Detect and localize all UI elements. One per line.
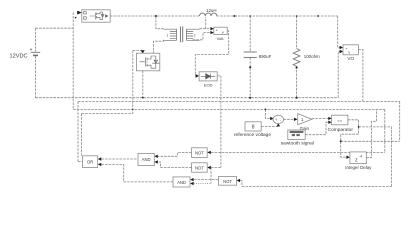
junction node bus sum tap	[265, 109, 267, 111]
wire OR lower input from AND2	[102, 164, 174, 182]
logic OR block	[83, 156, 98, 168]
arrow into AND2 lower	[190, 182, 193, 185]
wire EOD output down	[217, 76, 221, 168]
junction node top rail c	[317, 15, 319, 17]
svg-text:Volt.: Volt.	[217, 36, 225, 41]
wire secondary bottom to voltmeter	[193, 33, 211, 40]
arrow into OR lower	[98, 163, 101, 166]
wire 12VDC top to gate column	[35, 27, 73, 29]
svg-text:12uH: 12uH	[206, 8, 217, 13]
diode D1 EOD block	[199, 72, 217, 81]
logic AND2 block	[173, 177, 190, 187]
svg-text:NOT: NOT	[195, 166, 204, 171]
logic AND1 block	[138, 153, 154, 165]
arrow into AND2 upper	[190, 178, 193, 181]
svg-text:100ohm: 100ohm	[304, 54, 320, 59]
arrow comparator input lower	[328, 121, 331, 124]
transformer core	[180, 27, 182, 43]
wire dc source top lead	[34, 28, 36, 51]
wire primary bottom to mosfet2	[154, 40, 164, 53]
svg-text:EOD: EOD	[204, 82, 213, 87]
wire delay output up	[366, 109, 376, 157]
constant block reference voltage	[245, 122, 261, 131]
junction node top rail a	[155, 15, 157, 17]
svg-text:AND: AND	[177, 180, 186, 185]
svg-text:v: v	[222, 30, 224, 35]
wire mosfet2 source to rail	[142, 71, 144, 98]
svg-text:VO: VO	[347, 56, 354, 61]
arrow voltmeter input plus	[210, 27, 213, 30]
wire secondary top riser	[200, 17, 211, 29]
junction node top rail b	[234, 15, 236, 17]
wire lower feedback horizontal	[341, 140, 400, 142]
inductor L1 12uH	[200, 13, 217, 16]
wire resistor bottom lead	[296, 66, 298, 97]
wire feedback bus horizontal	[73, 108, 385, 110]
svg-text:890uF: 890uF	[259, 54, 272, 59]
wire AND2 lower input dotted	[194, 183, 211, 185]
wire VO minus to rail	[338, 52, 339, 98]
comparator U2 block	[332, 115, 348, 125]
wire NOT1 input long line	[211, 109, 385, 152]
arrow into NOT1	[207, 151, 211, 154]
gain G1 triangle	[298, 114, 312, 125]
wire gate branch lower	[78, 101, 133, 161]
wire constant to sum	[261, 125, 278, 127]
voltmeter VO block	[343, 45, 358, 55]
arrow into OR upper	[98, 157, 101, 160]
wire gate/feed vertical column	[72, 12, 74, 109]
svg-text:-4: -4	[359, 154, 362, 158]
arrow into sum bottom	[277, 123, 281, 126]
junction node cap mark	[249, 66, 251, 68]
wire sum to gain	[284, 118, 295, 120]
wire NOT3 output to AND2	[194, 179, 219, 181]
arrow into sum left	[270, 117, 273, 120]
junction node rail mosfet2	[142, 97, 144, 99]
wire gain to comparator	[312, 117, 328, 119]
svg-text:NOT: NOT	[223, 179, 232, 184]
mosfet1 U1 block	[82, 10, 110, 22]
junction node rail cap	[249, 97, 251, 99]
arrow voltmeter input minus	[210, 31, 213, 34]
wire top rail corner down to VO	[338, 16, 340, 48]
junction node mosfet1 aux	[75, 17, 77, 19]
wire primary feed drop	[156, 16, 164, 29]
junction node rail res	[296, 97, 298, 99]
svg-text:2: 2	[194, 33, 196, 37]
svg-text:OR: OR	[87, 160, 93, 165]
wire NOT2 to AND1	[158, 162, 192, 168]
wire top output rail	[110, 15, 338, 17]
dc voltage source 12VDC	[30, 48, 40, 55]
arrow comparator input upper	[328, 117, 331, 120]
wire NOT3 input long line	[240, 181, 391, 187]
wire NOT2 line branch to AND2	[210, 168, 212, 184]
arrow VO input plus	[340, 46, 343, 49]
arrow into mosfet1	[77, 11, 82, 15]
logic NOT3 block	[219, 177, 237, 186]
wire mosfet2 gate feed	[133, 51, 143, 114]
wire AND1 output to OR	[102, 158, 139, 160]
wire OR output	[78, 161, 83, 163]
wire capacitor bottom lead	[249, 57, 251, 97]
svg-text:1: 1	[167, 33, 169, 37]
transformer secondary winding	[186, 29, 199, 40]
svg-text:Integer Delay: Integer Delay	[345, 165, 372, 170]
svg-text:Comparator: Comparator	[328, 127, 354, 133]
wire feedback drop to sum	[266, 109, 271, 118]
wire NOT2 input	[211, 167, 221, 169]
svg-text:NOT: NOT	[195, 151, 204, 156]
logic NOT2 block	[192, 163, 208, 172]
svg-text:v: v	[348, 50, 350, 54]
arrow into AND1 upper	[154, 155, 157, 158]
wire resistor top lead	[296, 16, 298, 49]
junction node delay path	[340, 140, 342, 142]
arrow into AND1 lower	[154, 160, 157, 163]
junction node res tap	[296, 15, 298, 17]
svg-text:+: +	[345, 47, 347, 51]
transformer T1	[164, 27, 200, 43]
integer delay Z1 block	[350, 152, 366, 164]
svg-text:<=: <=	[337, 118, 342, 123]
svg-text:reference voltage: reference voltage	[234, 132, 271, 138]
wire NOT1 to AND1	[158, 152, 192, 156]
junction node res mark	[296, 66, 298, 68]
svg-text:+: +	[216, 28, 218, 32]
svg-text:AND: AND	[142, 157, 151, 162]
resistor R1	[293, 49, 300, 67]
svg-text:sawtooth signal: sawtooth signal	[281, 141, 314, 147]
arrow into integer delay	[346, 156, 350, 159]
arrow into mosfet2	[141, 50, 145, 53]
sum junction S1	[273, 115, 284, 123]
svg-text:12VDC: 12VDC	[10, 54, 28, 60]
arrow into gain	[294, 118, 298, 121]
wire VO output down right side	[78, 50, 400, 142]
arrow into NOT3	[237, 179, 241, 182]
logic NOT1 block	[192, 148, 208, 158]
wire sawtooth to comparator	[305, 122, 328, 135]
wire comparator output to delay	[341, 120, 359, 157]
wire comparator branch right	[359, 127, 392, 187]
arrow into NOT2	[207, 166, 211, 169]
svg-text:8: 8	[252, 125, 255, 131]
arrow into EOD diode	[196, 74, 200, 78]
mosfet2 Q1 block	[137, 53, 160, 71]
arrow VO input minus	[340, 50, 343, 53]
junction node bus left	[132, 109, 133, 110]
junction node cap tap	[249, 15, 251, 17]
voltmeter V1 block	[214, 27, 227, 34]
capacitor C1	[244, 52, 257, 57]
wire bottom power rail	[35, 97, 338, 99]
sawtooth source block	[288, 130, 305, 139]
transformer primary winding	[164, 29, 177, 40]
svg-text:+: +	[275, 118, 277, 122]
wire capacitor top lead	[249, 16, 251, 52]
wire dc source bottom lead	[34, 56, 36, 98]
junction node comp branch	[358, 126, 360, 128]
wire voltmeter output down-left to EOD	[195, 31, 228, 74]
